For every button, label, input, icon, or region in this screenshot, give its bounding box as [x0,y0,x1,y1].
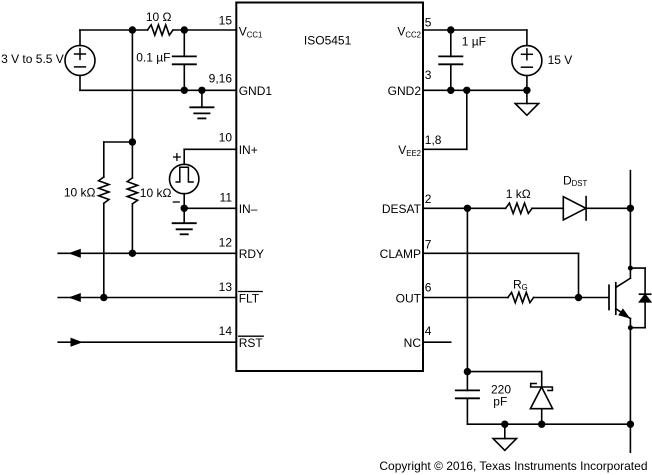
svg-text:IN–: IN– [239,202,258,216]
svg-text:RG: RG [513,277,528,292]
svg-text:3 V to 5.5 V: 3 V to 5.5 V [1,52,64,66]
svg-text:GND2: GND2 [388,84,422,98]
svg-text:6: 6 [425,281,432,295]
svg-text:OUT: OUT [396,291,422,305]
svg-text:10: 10 [219,130,233,144]
svg-text:CLAMP: CLAMP [380,247,421,261]
svg-text:10 kΩ: 10 kΩ [140,186,172,200]
svg-text:ISO5451: ISO5451 [304,33,352,47]
svg-text:5: 5 [425,15,432,29]
svg-text:10 kΩ: 10 kΩ [64,186,96,200]
svg-text:9,16: 9,16 [209,72,233,86]
svg-text:VEE2: VEE2 [398,143,421,158]
svg-text:2: 2 [425,192,432,206]
svg-text:IN+: IN+ [239,143,258,157]
svg-text:RDY: RDY [239,247,264,261]
svg-text:3: 3 [425,68,432,82]
svg-text:1,8: 1,8 [425,133,442,147]
svg-text:0.1 µF: 0.1 µF [136,50,170,64]
svg-text:15: 15 [219,14,233,28]
svg-text:13: 13 [219,280,233,294]
svg-text:GND1: GND1 [239,84,273,98]
svg-text:DDST: DDST [563,174,588,189]
svg-text:4: 4 [425,324,432,338]
svg-text:VCC2: VCC2 [397,25,421,40]
svg-text:12: 12 [219,235,233,249]
svg-text:1 µF: 1 µF [462,34,486,48]
svg-text:1 kΩ: 1 kΩ [506,187,531,201]
svg-text:DESAT: DESAT [382,202,422,216]
svg-text:VCC1: VCC1 [239,25,263,40]
svg-text:14: 14 [219,324,233,338]
svg-text:NC: NC [404,336,422,350]
svg-text:FLT: FLT [239,291,260,305]
svg-text:11: 11 [220,190,233,204]
svg-text:pF: pF [493,395,507,409]
svg-text:7: 7 [425,237,432,251]
svg-text:RST: RST [239,336,264,350]
svg-text:Copyright © 2016, Texas Instru: Copyright © 2016, Texas Instruments Inco… [379,459,647,473]
svg-text:10 Ω: 10 Ω [146,10,172,24]
svg-text:15 V: 15 V [548,53,573,67]
